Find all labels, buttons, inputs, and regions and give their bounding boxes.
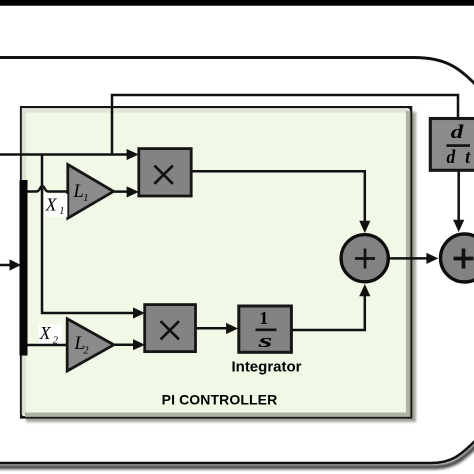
multiply sign M1 [154, 166, 172, 184]
d/dt text [446, 123, 473, 168]
wire: gain L2 output into multiplier M2 bottom [113, 339, 145, 350]
wire: bus bar to gain L2 [27, 344, 68, 347]
wire: input A (y=154.5) into multiplier M1 top [0, 149, 139, 160]
label L2 [74, 334, 90, 357]
svg-text:2: 2 [53, 335, 59, 346]
wire: bus bar to gain L1 (with hop over x=42 wire) [27, 186, 68, 192]
plus sign S2 [454, 249, 474, 269]
wire: d/dt output down into summer S2 top [453, 171, 464, 232]
wire: multiplier M1 output to summer S1 top [191, 171, 370, 233]
svg-text:d: d [451, 123, 465, 143]
multiplier M1 box [139, 149, 191, 196]
svg-text:X: X [45, 194, 58, 214]
svg-text:L: L [73, 182, 84, 202]
label L1 [73, 182, 89, 204]
svg-text:d t: d t [447, 148, 474, 168]
svg-text:2: 2 [83, 346, 89, 357]
integrator 1/s text [256, 308, 277, 352]
plus sign S1 [355, 249, 375, 269]
PI box inner bevel highlight (left/top) [24, 110, 408, 415]
label X1 [44, 194, 67, 217]
wire: feedback loop top (x=112 up, across y=95, down x=458 into d/dt) [112, 95, 458, 155]
gain L2 triangle [67, 319, 114, 371]
PI box inner bevel shade (right/bottom) [25, 111, 408, 415]
system boundary rounded-rect shadow (bottom edge) [0, 443, 474, 467]
wire: summer S1 output into summer S2 [390, 253, 439, 264]
summer S1 [341, 235, 388, 282]
svg-text:1: 1 [59, 206, 64, 217]
wire: branch at x=42 down to multiplier M2 top input [42, 155, 145, 319]
wire: multiplier M2 output into integrator [196, 323, 239, 334]
svg-text:PI CONTROLLER: PI CONTROLLER [162, 392, 278, 408]
integrator block 1/s [239, 306, 292, 352]
d/dt block [430, 119, 474, 171]
summer S2 [441, 234, 474, 282]
multiply sign M2 [161, 321, 179, 339]
svg-text:1: 1 [259, 308, 268, 328]
label X2 [39, 323, 63, 346]
X bus bar [20, 180, 28, 356]
wire: gain L1 output into multiplier M1 bottom [112, 186, 139, 197]
top border bar [0, 0, 474, 6]
svg-text:X: X [39, 323, 52, 343]
svg-text:Integrator: Integrator [231, 359, 301, 376]
svg-text:1: 1 [83, 193, 88, 204]
PI controller box [21, 107, 411, 417]
system boundary bottom edge [0, 440, 474, 463]
svg-text:s: s [257, 332, 273, 352]
PI controller box shadow [26, 112, 416, 422]
multiplier M2 box [145, 305, 196, 352]
gain L1 triangle [68, 165, 114, 219]
wire: integrator output up into summer S1 bottom [291, 284, 370, 330]
wire: error input into X bus bar [0, 259, 21, 270]
system boundary top edge [0, 58, 474, 86]
